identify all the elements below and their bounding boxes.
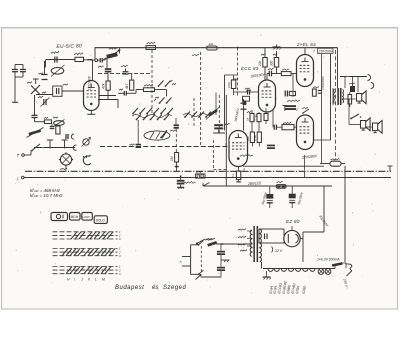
svg-text:2×6,3V 500mA: 2×6,3V 500mA xyxy=(316,258,340,262)
svg-text:1k: 1k xyxy=(246,117,250,121)
wire chassis long bus 2 xyxy=(24,177,391,179)
terminal antenna circle xyxy=(95,59,98,62)
label R18 1k xyxy=(277,181,283,182)
label R16 xyxy=(282,69,289,70)
pilot lamp with arrow xyxy=(83,139,89,145)
tube V1 ECC85 FM xyxy=(84,81,100,111)
wire C9 to resistor xyxy=(175,129,177,153)
wire R6 to switch xyxy=(155,89,167,91)
label C18 xyxy=(268,68,274,69)
inductor L1 oscillator coil xyxy=(51,68,64,75)
inductor IF coil box xyxy=(243,96,250,101)
scan speckle texture xyxy=(132,73,133,74)
chassis ground under T1 xyxy=(266,271,268,277)
wire R3 stubs xyxy=(107,74,109,81)
wire rail left drop xyxy=(202,183,204,186)
svg-text:M: M xyxy=(102,278,105,282)
wire screen column xyxy=(321,54,323,164)
pushbutton B4 SOLO xyxy=(94,216,107,224)
label near box cap xyxy=(63,84,68,85)
pushbutton B3 LAST xyxy=(82,213,93,221)
wire FM antenna input xyxy=(46,59,75,61)
svg-text:4k7: 4k7 xyxy=(125,83,129,89)
wire mains to transformer xyxy=(217,243,253,245)
capacitor C17 dark blob xyxy=(243,101,247,106)
wire to band coil xyxy=(34,118,36,122)
label C10 xyxy=(225,123,230,124)
ferrite rod rear view xyxy=(83,156,91,165)
svg-text:Szeged: Szeged xyxy=(163,285,187,291)
resistor R12 under V5 xyxy=(236,171,240,180)
wire tuner to grid box xyxy=(36,94,53,96)
wire V4 column xyxy=(224,75,226,131)
wire V2 anode right xyxy=(330,54,332,141)
tuning indicator EM80 front xyxy=(60,154,71,165)
wire rail to rectifier xyxy=(323,186,325,232)
label left edge xyxy=(192,54,199,55)
switch right contacts xyxy=(184,116,186,118)
capacitor C4 xyxy=(32,114,38,116)
capacitor C19 cathode xyxy=(318,90,322,92)
resistor R13 anode xyxy=(263,58,267,68)
capacitor C22 dark xyxy=(285,105,296,107)
wire HT+ top bus xyxy=(95,47,338,49)
label R1 value xyxy=(74,53,83,55)
svg-text:300: 300 xyxy=(269,60,273,66)
wire V3 top xyxy=(304,48,306,55)
label R14 top xyxy=(273,54,277,55)
inductor L2 band coil xyxy=(54,121,65,126)
HT secondary box xyxy=(259,229,284,243)
capacitor C14 T xyxy=(62,139,68,141)
label 12V bracket xyxy=(272,247,273,253)
label 210/260V boxed xyxy=(318,48,334,53)
resistor R5 4k7 xyxy=(130,80,134,90)
capacitor C18 20n coupling xyxy=(268,71,270,77)
capacitor C5 470p dark xyxy=(105,68,112,70)
label dial xyxy=(170,130,176,132)
label C26 5uF/20V xyxy=(183,182,196,184)
output terminal arcs xyxy=(368,75,371,81)
resistor R2 xyxy=(44,120,51,124)
label R19 xyxy=(283,122,291,124)
svg-text:I: I xyxy=(74,278,75,282)
wire V1 anode right xyxy=(99,95,116,97)
label C16 value xyxy=(246,90,251,91)
svg-text:1M: 1M xyxy=(170,156,174,161)
resistor R11c xyxy=(264,114,268,121)
fuse F1 mains xyxy=(207,241,217,247)
capacitor C2 left pair a xyxy=(12,69,18,71)
tube V4 ECC83 xyxy=(259,80,276,112)
capacitor C7 47 xyxy=(123,91,125,96)
trimmer capacitor CT1 with arrow xyxy=(31,85,40,94)
antenna terminal T-bar xyxy=(33,78,39,80)
wire B+ 280V rail xyxy=(203,185,332,187)
switch bank SB1 xyxy=(53,231,118,233)
terminal arc C xyxy=(73,145,76,150)
capacitor C23 dark top xyxy=(350,86,355,92)
svg-text:LAST: LAST xyxy=(82,215,90,219)
svg-text:2: 2 xyxy=(295,108,298,112)
label anode V5 slanted xyxy=(240,155,253,157)
capacitor C9 dark blob xyxy=(174,124,179,126)
trimmer capacitor 40p xyxy=(43,99,45,105)
wire V2 cathode ground xyxy=(304,155,306,178)
label R6 100k xyxy=(144,84,153,86)
label 220V tap xyxy=(238,229,246,231)
svg-text:EZ 80: EZ 80 xyxy=(286,219,300,224)
wire C5 stubs xyxy=(106,57,108,68)
mains terminal upper xyxy=(196,242,198,244)
label contact b xyxy=(172,83,176,84)
switch bank SB3 xyxy=(53,266,118,268)
label C8 xyxy=(130,144,135,145)
resistor R16 grid stopper xyxy=(281,72,291,76)
capacitor C8 5n dark xyxy=(136,144,142,146)
wire chassis long bus 1 xyxy=(25,170,391,172)
svg-text:⊥: ⊥ xyxy=(16,176,20,181)
capacitor C15 5n xyxy=(241,102,247,104)
capacitor C29 dark pair xyxy=(267,145,275,147)
svg-text:12 V: 12 V xyxy=(275,249,283,253)
svg-text:110/100V: 110/100V xyxy=(88,75,92,90)
chassis tap mains xyxy=(220,255,222,260)
tuning gang capacitor slanted xyxy=(28,129,41,135)
wire left column xyxy=(14,72,16,77)
resistor R1 xyxy=(75,57,84,61)
svg-text:2×EL 84: 2×EL 84 xyxy=(296,42,316,47)
transformer T1 core xyxy=(253,226,255,262)
capacitor C16 20n xyxy=(247,90,249,95)
capacitor C30 coupling xyxy=(273,125,275,130)
wire speaker top rail xyxy=(340,76,367,78)
shielded trimmer box xyxy=(53,86,62,96)
capacitor C27 mains a xyxy=(220,244,222,251)
wire heater feed vertical xyxy=(344,166,346,262)
capacitor C6 on AVC line xyxy=(123,71,129,73)
wire V1 top feed xyxy=(92,60,94,81)
resistor R11d xyxy=(250,132,254,143)
wire dashed divider x152 xyxy=(151,50,153,115)
trimmer capacitor CT2 crossed xyxy=(208,109,218,117)
tube V2 EL84 lower xyxy=(297,115,314,150)
label C7 value xyxy=(119,89,123,90)
wire mains dashed xyxy=(200,246,202,273)
resistor R19 grid stopper xyxy=(282,125,294,130)
svg-text:3: 3 xyxy=(243,168,245,172)
wire dashed divider x335 xyxy=(335,50,337,160)
svg-text:7: 7 xyxy=(313,50,315,54)
resistor R4 slanted with arrow xyxy=(106,52,118,59)
wire tuning column xyxy=(34,95,36,115)
wire grid feed xyxy=(62,90,84,92)
label R15 value xyxy=(233,78,238,79)
label C5 xyxy=(98,66,104,67)
label C1 value xyxy=(51,52,59,54)
capacitor C3 2p xyxy=(42,74,48,76)
resistor R20 tone xyxy=(348,95,352,105)
label 127V tap xyxy=(238,236,246,238)
svg-text:10M: 10M xyxy=(227,82,231,88)
resistor R11e xyxy=(257,132,261,143)
switch wafer row contacts xyxy=(132,113,134,115)
speaker LS2 xyxy=(361,121,366,129)
label R4 xyxy=(109,48,117,50)
wire R16 to V3 xyxy=(291,73,297,75)
capacitor C21 T xyxy=(283,105,288,107)
label C6 470 xyxy=(121,65,128,67)
resistor R9 1M xyxy=(175,153,179,163)
mains terminal lower xyxy=(199,274,201,276)
switch S3 band lever xyxy=(160,137,162,139)
label 1M xyxy=(42,92,46,93)
thermistor NTC xyxy=(330,161,341,166)
tube V3 EL84 upper xyxy=(297,55,314,87)
wire AM detector line xyxy=(34,147,75,149)
svg-text:ECC 83: ECC 83 xyxy=(241,66,259,71)
resistor R3 47k xyxy=(106,81,110,90)
resistor R15 grid left xyxy=(231,80,235,89)
svg-text:T: T xyxy=(17,153,20,158)
label cathode values xyxy=(313,87,319,88)
resistor R17 cathode xyxy=(312,89,316,96)
wire V4 anode coupling xyxy=(266,74,268,81)
label R11 area xyxy=(247,111,251,112)
wire C18 to R16 xyxy=(272,73,282,75)
capacitor C12 with arc xyxy=(65,134,67,139)
label 110V tap2 xyxy=(240,250,247,252)
transformer T2 output xyxy=(337,88,339,105)
heater end bracket xyxy=(346,264,352,276)
label switch a xyxy=(155,97,159,98)
wire speaker links xyxy=(342,98,356,100)
paper top edge shadow xyxy=(2,27,398,29)
node bus tap xyxy=(180,175,182,177)
resistor R14 screen xyxy=(274,58,278,68)
wire dashed divider x237 xyxy=(237,48,239,98)
chassis ground top xyxy=(276,45,278,48)
dial lamp LA2 xyxy=(325,269,331,275)
wire AVC long dash-dot bus xyxy=(100,146,229,148)
capacitor C10 IF dark xyxy=(214,124,223,126)
pushbutton B1 xyxy=(51,213,68,221)
wire dashed L volume xyxy=(212,140,214,170)
electrolytic C26 5uF xyxy=(180,178,182,180)
wire detector row xyxy=(98,99,118,101)
label L2 value xyxy=(53,117,58,118)
svg-text:2: 2 xyxy=(231,174,234,178)
switch S2 contact pair xyxy=(159,102,161,104)
capacitor C2 left pair b xyxy=(20,69,26,71)
svg-text:22k: 22k xyxy=(258,60,262,67)
speaker LS1 xyxy=(357,94,362,102)
wire heater rail xyxy=(263,268,335,270)
switch bank SB2 xyxy=(53,248,118,250)
resistor R18 1k xyxy=(276,185,286,189)
label R2 value xyxy=(44,117,48,118)
switch S5 speaker xyxy=(351,114,359,119)
tube V5 EABC80 xyxy=(229,131,248,167)
node dots detector line xyxy=(49,147,51,149)
electrolytic C25 xyxy=(291,186,293,194)
svg-text:J: J xyxy=(80,278,83,282)
wire V1 bottom cathode xyxy=(90,111,92,115)
trimmer above V2 xyxy=(303,109,309,113)
wire bus hook right xyxy=(389,166,391,171)
svg-text:SOLO: SOLO xyxy=(96,219,105,223)
transformer T1 secondary winding xyxy=(260,229,262,262)
label 100n 25n xyxy=(287,100,300,102)
switch wafer wavy link xyxy=(132,115,172,118)
wire V2 grid feed xyxy=(292,74,294,98)
svg-text:10k: 10k xyxy=(209,42,214,46)
svg-text:470k: 470k xyxy=(253,135,257,141)
resistor R11a xyxy=(250,114,254,122)
fuse F2 heater xyxy=(334,265,336,269)
svg-text:és: és xyxy=(152,285,158,291)
switch S4 diagonal xyxy=(32,144,40,151)
switch wafer row 2 contacts xyxy=(136,119,138,121)
wire OT feed xyxy=(337,48,339,89)
wire V5 anode out xyxy=(243,165,324,167)
svg-text:210/260V: 210/260V xyxy=(318,49,334,53)
label near trimmer xyxy=(27,82,32,83)
wire dashed divider x200 xyxy=(200,52,202,147)
heater loops xyxy=(268,269,273,272)
label 40p xyxy=(38,96,43,98)
capacitor C13 T xyxy=(47,139,53,141)
label R13 top xyxy=(261,54,265,55)
resistor R11b xyxy=(257,114,261,122)
wire x225 column xyxy=(225,95,227,186)
capacitor C11 xyxy=(50,126,55,128)
label 110V tap xyxy=(238,244,246,246)
resistor R7 100k top bus xyxy=(146,46,156,50)
wire rectifier output xyxy=(300,238,303,240)
wire dashed divider x194 xyxy=(193,98,195,126)
resistor R8 top bus xyxy=(207,46,218,50)
speaker LS3 xyxy=(373,123,378,131)
svg-text:7: 7 xyxy=(225,143,227,147)
wire AVC dash line upper-left xyxy=(98,73,152,75)
svg-text:MGH: MGH xyxy=(71,215,79,219)
svg-text:Budapest: Budapest xyxy=(115,285,144,291)
svg-text:9: 9 xyxy=(255,114,257,118)
wire dashed divider x176 upper xyxy=(175,118,177,124)
dial lamp LA1 xyxy=(318,269,324,275)
svg-text:47k: 47k xyxy=(102,83,106,89)
wire dashed divider x219 xyxy=(218,95,220,135)
svg-text:kf FM = 10.7 MHz: kf FM = 10.7 MHz xyxy=(30,193,63,198)
wire bus to R4 xyxy=(119,48,121,54)
svg-text:L: L xyxy=(95,278,97,282)
switch S1 contact pair xyxy=(158,85,160,87)
capacitor C31 series xyxy=(99,58,101,63)
capacitor C1 470p xyxy=(54,57,56,63)
transformer T1 primary winding xyxy=(250,230,252,256)
label R7 xyxy=(147,42,156,44)
connector PU box xyxy=(196,174,206,178)
pushbutton B2 MGH xyxy=(70,213,81,221)
label EM80 xyxy=(60,168,67,169)
capacitor C28 mains b xyxy=(220,260,222,267)
resistor R10 xyxy=(56,126,60,134)
dial drive oval xyxy=(144,131,170,140)
bracket PU jack xyxy=(190,245,192,275)
electrolytic C24 xyxy=(269,186,271,194)
wire down to osc coil xyxy=(45,60,47,68)
tube V6 EZ80 rectifier xyxy=(284,230,300,246)
capacitor C20 phase xyxy=(284,91,286,97)
resistor R6 100k xyxy=(144,88,155,92)
svg-text:EU-5/C 80: EU-5/C 80 xyxy=(56,43,82,50)
